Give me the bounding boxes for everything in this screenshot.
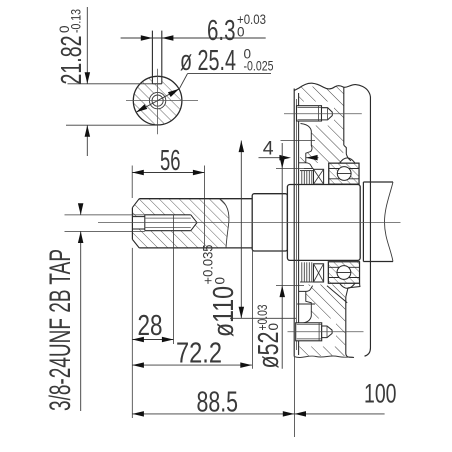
svg-text:21.82: 21.82 (56, 36, 88, 85)
svg-text:-0.13: -0.13 (69, 9, 84, 33)
dimension 56 (132, 172, 204, 174)
keyway slot bottom (152, 83, 161, 85)
svg-text:ø 25.4: ø 25.4 (180, 45, 236, 77)
shaft end chamfer bottom (132, 239, 139, 248)
dimension 72.2 (132, 364, 252, 366)
svg-text:6.3: 6.3 (207, 15, 236, 47)
white-out below case bottom wavy (294, 356, 354, 364)
dia 25.4 arrowheads (168, 89, 179, 97)
upper seal stack lines (300, 170, 314, 172)
tap drill cone point (191, 215, 197, 231)
lower seal stack lines (300, 281, 314, 283)
lower bolt centerline (288, 331, 364, 333)
svg-text:ø110: ø110 (208, 286, 240, 337)
svg-text:0: 0 (237, 25, 245, 40)
svg-text:-0.025: -0.025 (244, 59, 274, 74)
upper bolt pocket void (299, 102, 334, 158)
seal journal cylinder (252, 194, 287, 251)
dimension dia52 line (281, 143, 283, 369)
svg-text:28: 28 (138, 310, 163, 342)
dia110 extension lines (281, 140, 316, 142)
svg-text:0: 0 (213, 277, 228, 285)
upper bolt centerline (284, 113, 362, 115)
svg-text:ø52: ø52 (253, 332, 285, 369)
lower oil seal box (314, 264, 324, 282)
tap hole minor circle (152, 95, 163, 106)
lower seal bore bottom edge (dia52 extension) (276, 285, 304, 287)
dimension 3/8-24UNF dimension line (80, 206, 82, 215)
case outer right edge bottom corner (365, 348, 371, 356)
dimension 21.82 extension lines (68, 83, 153, 85)
left extension line from shaft end (131, 248, 133, 418)
lower ball bearing (328, 262, 359, 283)
dimension 56 extension lines (131, 166, 133, 199)
upper ball bearing (329, 163, 359, 184)
lower bolt (296, 323, 322, 341)
tapped hole void (149, 92, 166, 109)
crank web (363, 182, 393, 262)
bearing boss arc upper (340, 158, 360, 163)
shaft end section hatch (130, 73, 186, 129)
tap drill outline (145, 214, 191, 216)
svg-text:72.2: 72.2 (176, 338, 222, 370)
shaft outline circle (133, 76, 182, 125)
upper case wall hatch (299, 87, 344, 164)
dimension 3/8-24UNF extension lines (65, 214, 145, 216)
lower case boss step profile (346, 283, 360, 297)
svg-text:56: 56 (160, 145, 181, 177)
shaft top edge (139, 198, 252, 200)
shaft end face (131, 208, 133, 240)
lower bearing boss arc (340, 283, 356, 288)
dimension 28 extension line (173, 215, 175, 344)
thread lines (145, 217, 191, 219)
keyway slot void (152, 74, 161, 84)
dimension 88.5 / 100 shared line (132, 413, 384, 415)
dimension diameter 25.4 diagonal line (136, 89, 179, 113)
upper seal bore front profile (299, 163, 313, 169)
shaft bottom edge (139, 247, 252, 249)
case bottom break wavy line (294, 356, 354, 358)
upper oil seal box (314, 169, 324, 184)
lower front pocket void (299, 286, 313, 324)
dimension 21.82 dimension line (86, 7, 88, 84)
shaft break wavy line (220, 199, 229, 248)
shaft end chamfer top (132, 199, 139, 208)
lower seal bore front profile (299, 286, 313, 292)
svg-text:100: 100 (364, 378, 397, 408)
tap hole entry lines (132, 216, 144, 218)
shaft feature line at 56 (204, 199, 206, 248)
case mounting face lines (293, 89, 295, 357)
lower case wall hatch (299, 285, 346, 357)
shaft section hatch (130, 196, 234, 250)
upper seal bore top edge (dia52 extension) (276, 168, 304, 170)
case inner wall upper (343, 87, 345, 145)
dimension 72.2 extension line (step face) (252, 251, 254, 369)
upper bolt (297, 106, 322, 121)
dimension 6.3 keyway width (121, 37, 266, 39)
upper bolt pocket profile (301, 124, 313, 163)
lower boss draft diagonal (327, 286, 347, 303)
crank web break wavy line (385, 182, 394, 262)
lower boss void below bearing (346, 284, 360, 289)
svg-text:4: 4 (263, 138, 274, 160)
dimension dia110 line (240, 141, 242, 319)
end view horizontal centerline (126, 100, 198, 102)
tapped hole void (132, 215, 197, 231)
svg-text:3/8-24UNF 2B TAP: 3/8-24UNF 2B TAP (44, 249, 77, 411)
dimension 28 (132, 339, 173, 341)
case inner wall lower (346, 297, 354, 358)
white-out above case top outline (294, 75, 355, 91)
end view vertical centerline (157, 69, 159, 135)
tap hole thread circle (149, 92, 165, 108)
case face extension line below (293, 357, 295, 437)
main axis centerline (98, 222, 401, 224)
bearing boss void above bearing (343, 150, 360, 163)
svg-text:0: 0 (266, 323, 281, 331)
case outer right edge (continuous) (369, 97, 371, 349)
case top casting outline (294, 83, 370, 96)
bearing journal (287, 185, 360, 261)
lower pocket profile (301, 291, 312, 323)
svg-text:88.5: 88.5 (197, 386, 239, 418)
tap hole step (144, 215, 146, 231)
keyway slot side lines (151, 31, 153, 84)
lower bolt pocket void (299, 319, 336, 347)
